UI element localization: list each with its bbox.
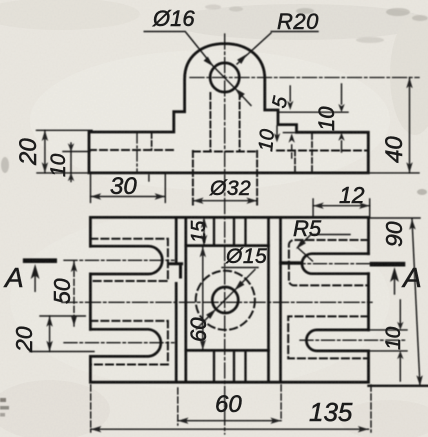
hidden lines: D32 projection / extension bbox=[192, 151, 194, 207]
vertical main centerline (through both views) bbox=[224, 34, 226, 434]
hidden lines: D16 hole projection bbox=[209, 93, 211, 151]
slot arc projection dashed (left) bbox=[151, 133, 153, 150]
dimension 12 (top right) bbox=[313, 199, 370, 217]
dimension 10 (left) bbox=[63, 151, 90, 153]
D15 leader through hole bbox=[197, 268, 259, 330]
dimension 15 (top band) bbox=[203, 217, 205, 245]
hidden circle D32 bbox=[196, 271, 255, 330]
horizontal centerline of hole (extends to 40-dim) bbox=[190, 77, 419, 79]
left lower hidden band bbox=[90, 321, 167, 365]
R20 arrowhead on arc bbox=[237, 54, 247, 64]
D16 arrowheads bbox=[204, 57, 245, 99]
section plane mid thick bar bbox=[281, 261, 301, 265]
dimension 50 (left) bbox=[40, 315, 85, 317]
label R20 leader bbox=[237, 32, 318, 65]
main horizontal centerline bbox=[62, 301, 372, 303]
section mark A right: arrow bbox=[394, 271, 396, 294]
right upper slot centerline bbox=[292, 263, 386, 265]
central column walls bbox=[175, 217, 178, 382]
dimension 20 (left) bbox=[37, 129, 93, 131]
dimension 135 (bottom) bbox=[91, 385, 371, 432]
section mark A left: arrow bbox=[34, 268, 36, 291]
thick bottom-right extension bar bbox=[369, 385, 428, 387]
right upper slot bbox=[302, 254, 369, 274]
part outline front view bbox=[89, 44, 368, 173]
slot projections dashed (right) bbox=[294, 151, 296, 173]
right lower hidden band bbox=[288, 316, 368, 358]
hidden horizontal line middle bbox=[193, 151, 257, 153]
left upper slot bbox=[90, 246, 162, 274]
left lower slot centerline bbox=[64, 342, 174, 344]
left upper hidden band bbox=[90, 239, 167, 281]
dimension 90 (right) bbox=[369, 217, 421, 219]
dimension 60 (vertical, inside) bbox=[202, 247, 204, 351]
hidden horizontal line left section bbox=[89, 149, 174, 151]
left upper slot centerline bbox=[64, 259, 174, 261]
dimension 10 (right slot) bbox=[369, 330, 408, 351]
dimension 60 (bottom) bbox=[178, 385, 281, 425]
hidden horizontal line right section bbox=[277, 150, 368, 152]
right lower slot centerline bbox=[300, 339, 407, 341]
section mark A left: thick bar bbox=[25, 258, 55, 263]
R5 leader bbox=[298, 235, 313, 262]
outer contour with open slots bbox=[90, 217, 368, 382]
verticals in top band bbox=[214, 217, 246, 245]
dimension 5 (step) bbox=[289, 86, 291, 101]
label D16 leader bbox=[144, 32, 251, 106]
hole D16 circle bbox=[210, 63, 239, 92]
dimension D32 bbox=[193, 200, 257, 202]
R5 shelf line bbox=[311, 234, 350, 236]
dimension 40 (far right) bbox=[368, 172, 419, 174]
dimension 10 (right step) bbox=[278, 111, 348, 113]
dimension 10 (near boss right) bbox=[276, 126, 278, 136]
section mark A right: thick bar bbox=[372, 262, 403, 267]
dimension 30 (bottom left of front view) bbox=[90, 174, 92, 202]
left lower slot bbox=[90, 329, 160, 356]
right upper hidden band bbox=[289, 240, 369, 285]
verticals in bottom band bbox=[214, 350, 246, 382]
slot arc centerline projection (left) bbox=[136, 133, 138, 172]
internal horizontal edges of column bbox=[186, 244, 269, 247]
dimension 20 (left lower) bbox=[30, 351, 94, 353]
section plane jog at column bbox=[169, 264, 182, 277]
hole D15 bbox=[212, 287, 238, 313]
right lower slot bbox=[306, 330, 368, 351]
